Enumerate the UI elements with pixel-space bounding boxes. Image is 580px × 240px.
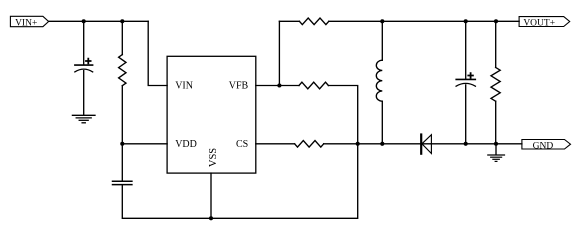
wire R1 to VDD node and C2 — [121, 86, 123, 181]
resistor R5 (current sense) — [295, 141, 324, 148]
svg-text:GND: GND — [533, 141, 554, 151]
wire rail to C3 — [465, 21, 467, 78]
wire C1 to rail — [83, 21, 85, 64]
node junction at C3 top — [464, 19, 468, 23]
svg-text:VOUT+: VOUT+ — [523, 19, 555, 29]
diode D1 — [421, 135, 431, 154]
wire VFB pin row — [256, 85, 299, 87]
wire rail to L1 — [381, 21, 383, 60]
wire rail to R3 — [495, 21, 497, 67]
capacitor C1 (polarized input cap) — [75, 59, 93, 72]
resistor R3 (output load) — [491, 67, 500, 101]
wire R4 to corner down — [328, 86, 357, 144]
node junction at L1 top — [380, 19, 384, 23]
node junction VSS on bottom rail — [209, 216, 213, 220]
svg-text:CS: CS — [236, 139, 248, 150]
ground (earth) below C1 — [72, 115, 95, 123]
wire C3 to bottom row — [465, 85, 467, 144]
wire VSS pin to bottom rail — [210, 173, 212, 218]
op-amp U1 (controller IC box) — [167, 56, 256, 173]
node junction VFB divider tap — [277, 83, 281, 87]
wire R3 to bottom row — [495, 101, 497, 144]
svg-text:VIN+: VIN+ — [15, 19, 37, 29]
wire C2 to bottom rail — [122, 144, 357, 219]
port flag VOUT+ — [519, 17, 570, 29]
capacitor C2 (VDD bypass) — [113, 181, 132, 184]
node junction at R1 top — [120, 19, 124, 23]
svg-text:VDD: VDD — [175, 139, 197, 150]
inductor L1 — [376, 60, 382, 101]
node junction ground node — [494, 142, 498, 146]
resistor R2 (feedback upper) — [299, 18, 328, 25]
resistor R4 (feedback lower) — [299, 82, 328, 89]
wire ground stem — [495, 144, 497, 155]
wire VFB tap up to output rail — [278, 21, 280, 85]
wire rail to R1 — [121, 21, 123, 54]
node junction inductor bottom — [380, 142, 384, 146]
node junction feedback/ground tie — [356, 142, 360, 146]
svg-text:VSS: VSS — [208, 148, 219, 167]
capacitor C3 (polarized output cap) — [456, 73, 475, 86]
node junction C3 bottom — [464, 142, 468, 146]
port flag GND — [522, 140, 571, 152]
wire R5 to diode — [324, 143, 432, 145]
node junction at C1 top — [82, 19, 86, 23]
wire output rail to VOUT+ flag — [329, 20, 519, 22]
ground (earth) at output — [488, 155, 505, 161]
svg-text:VIN: VIN — [175, 81, 193, 92]
wire VIN+ rail top — [49, 20, 149, 22]
resistor R1 (input divider) — [119, 55, 126, 86]
wire C1 to ground — [83, 71, 85, 115]
wire CS pin row — [256, 143, 295, 145]
wire diode to GND flag — [431, 143, 522, 145]
wire L1 to bottom row — [381, 101, 383, 144]
port flag VIN+ — [10, 16, 48, 28]
node junction at R3 top — [494, 19, 498, 23]
wire VIN rail drop to pin VIN — [148, 21, 167, 85]
wire VDD pin — [122, 143, 167, 145]
wire output rail top — [279, 20, 299, 22]
svg-text:VFB: VFB — [229, 81, 249, 92]
node junction at VDD — [120, 142, 124, 146]
